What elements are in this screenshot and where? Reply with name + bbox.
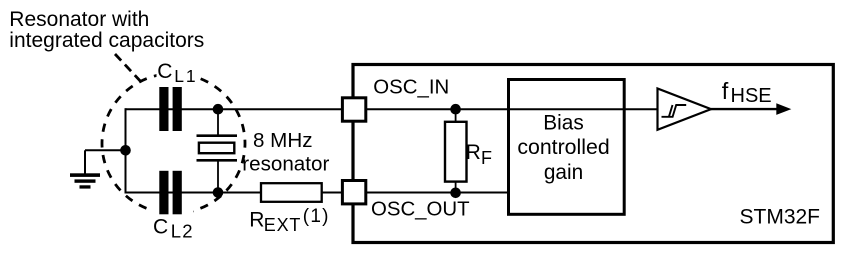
svg-text:Bias: Bias [543, 111, 583, 134]
svg-text:C: C [157, 60, 172, 83]
svg-text:integrated capacitors: integrated capacitors [9, 29, 204, 52]
svg-text:EXT: EXT [264, 215, 301, 235]
svg-text:Resonator with: Resonator with [9, 8, 149, 31]
svg-text:HSE: HSE [731, 85, 772, 107]
svg-text:resonator: resonator [242, 152, 329, 175]
svg-text:C: C [153, 216, 168, 239]
svg-text:OSC_IN: OSC_IN [373, 77, 449, 99]
svg-text:(1): (1) [303, 206, 330, 227]
svg-text:L2: L2 [171, 221, 194, 242]
svg-text:R: R [249, 209, 264, 232]
svg-text:R: R [466, 141, 481, 164]
svg-text:OSC_OUT: OSC_OUT [371, 198, 470, 220]
svg-text:8 MHz: 8 MHz [253, 129, 313, 152]
svg-text:f: f [722, 78, 729, 104]
svg-text:F: F [481, 148, 492, 168]
svg-text:controlled: controlled [517, 135, 609, 159]
svg-text:gain: gain [544, 161, 583, 184]
svg-text:STM32F: STM32F [740, 205, 821, 228]
svg-text:L1: L1 [174, 66, 197, 86]
